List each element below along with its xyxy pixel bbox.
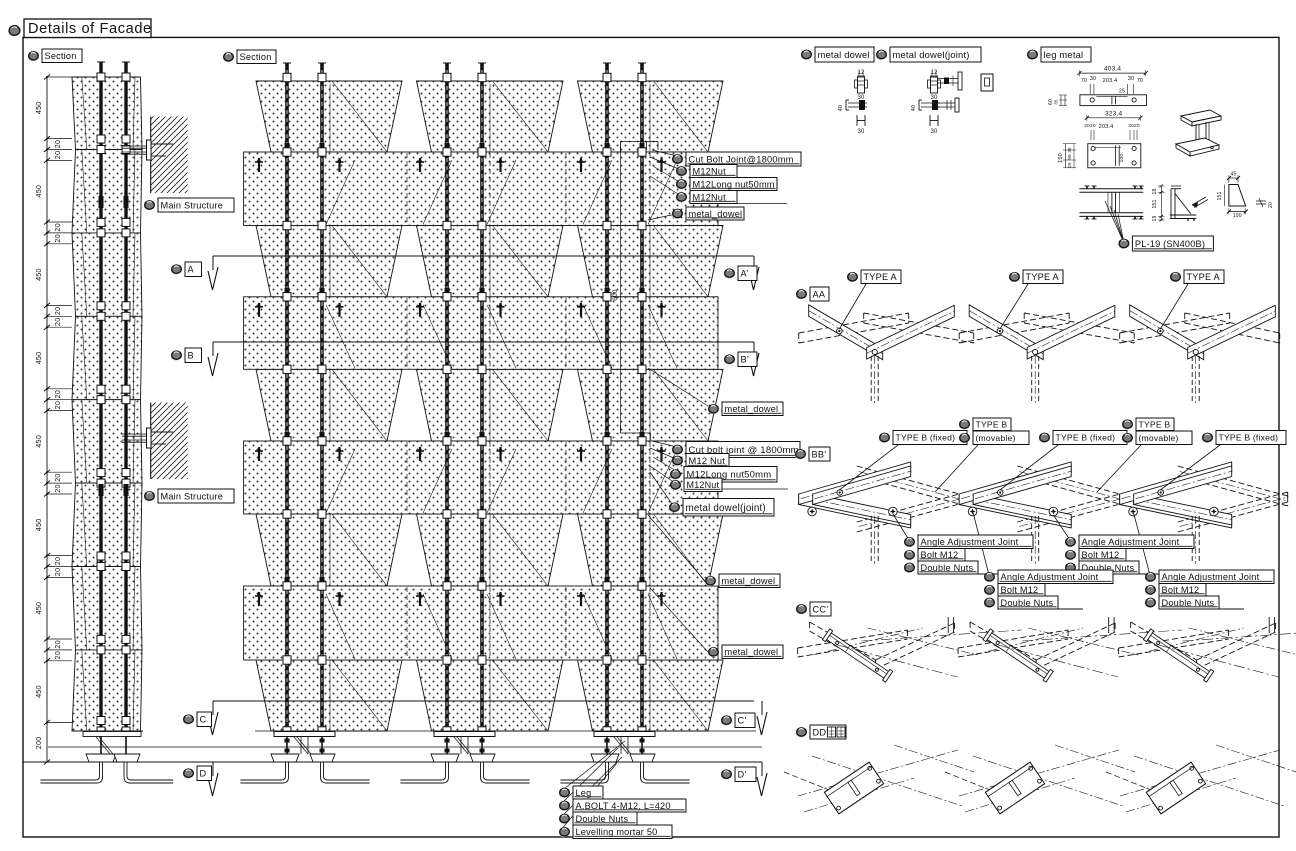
svg-text:30: 30 (1128, 76, 1135, 82)
svg-text:B’: B’ (741, 355, 750, 365)
svg-text:Angle Adjustment Joint: Angle Adjustment Joint (1082, 537, 1180, 547)
svg-text:Main Structure: Main Structure (161, 491, 224, 501)
svg-text:450: 450 (34, 268, 43, 281)
svg-text:metal dowel(joint): metal dowel(joint) (686, 503, 766, 514)
svg-text:20: 20 (1268, 202, 1274, 208)
svg-text:20: 20 (53, 640, 62, 648)
svg-text:20: 20 (53, 151, 62, 159)
svg-text:C’: C’ (738, 716, 747, 726)
svg-text:A.BOLT 4-M12, L=420: A.BOLT 4-M12, L=420 (576, 801, 671, 811)
svg-text:70: 70 (1137, 78, 1144, 84)
svg-text:TYPE A: TYPE A (864, 272, 898, 282)
svg-text:18: 18 (1152, 189, 1158, 195)
svg-text:450: 450 (34, 185, 43, 198)
svg-text:Section: Section (240, 52, 272, 62)
svg-text:151: 151 (1217, 192, 1223, 201)
svg-text:(movable): (movable) (1139, 433, 1179, 443)
svg-text:TYPE B (fixed): TYPE B (fixed) (1219, 433, 1279, 443)
svg-text:Angle Adjustment Joint: Angle Adjustment Joint (1162, 572, 1260, 582)
svg-text:TYPE A: TYPE A (1026, 272, 1060, 282)
svg-text:AA: AA (813, 289, 826, 299)
svg-text:Angle Adjustment Joint: Angle Adjustment Joint (921, 537, 1019, 547)
svg-text:Double Nuts: Double Nuts (1162, 598, 1215, 608)
svg-text:M12Long nut50mm: M12Long nut50mm (693, 179, 775, 189)
svg-text:30: 30 (857, 129, 865, 135)
svg-text:100: 100 (1119, 154, 1125, 163)
svg-text:metal_dowel: metal_dowel (725, 404, 779, 414)
svg-text:TYPE A: TYPE A (1187, 272, 1221, 282)
svg-text:metal dowel(joint): metal dowel(joint) (893, 49, 970, 60)
svg-text:TYPE B: TYPE B (1139, 419, 1171, 429)
svg-text:450: 450 (34, 102, 43, 115)
svg-text:TYPE B: TYPE B (976, 419, 1008, 429)
svg-text:Double Nuts: Double Nuts (921, 563, 974, 573)
svg-text:100: 100 (1233, 213, 1242, 219)
svg-text:TYPE B (fixed): TYPE B (fixed) (896, 433, 956, 443)
svg-text:20: 20 (53, 651, 62, 659)
svg-text:A: A (188, 265, 195, 275)
svg-text:30: 30 (930, 129, 938, 135)
svg-text:20: 20 (53, 234, 62, 242)
svg-text:CC’: CC’ (813, 604, 829, 614)
svg-text:20: 20 (53, 401, 62, 409)
svg-text:Section: Section (45, 51, 77, 61)
svg-text:D: D (200, 769, 207, 779)
svg-text:PL-19 (SN400B): PL-19 (SN400B) (1135, 239, 1205, 249)
svg-text:20: 20 (53, 568, 62, 576)
svg-text:DD’: DD’ (813, 727, 829, 737)
svg-text:M12Nut: M12Nut (693, 192, 727, 202)
svg-text:D’: D’ (738, 770, 747, 780)
svg-text:20: 20 (53, 390, 62, 398)
svg-text:151: 151 (1152, 200, 1158, 209)
svg-text:Details of Facade: Details of Facade (28, 21, 152, 37)
svg-text:metal_dowel: metal_dowel (725, 647, 779, 657)
svg-text:Double Nuts: Double Nuts (576, 814, 629, 824)
svg-text:25: 25 (1119, 89, 1125, 95)
svg-text:12: 12 (857, 70, 865, 76)
svg-text:20: 20 (53, 223, 62, 231)
svg-text:20: 20 (53, 318, 62, 326)
svg-text:403.4: 403.4 (1104, 66, 1121, 73)
svg-text:450: 450 (34, 685, 43, 698)
svg-text:20: 20 (53, 473, 62, 481)
svg-text:metal_dowel: metal_dowel (722, 576, 776, 586)
svg-text:leg metal: leg metal (1044, 49, 1084, 60)
svg-text:450: 450 (34, 602, 43, 615)
svg-text:20: 20 (53, 140, 62, 148)
svg-text:20: 20 (53, 484, 62, 492)
svg-text:Double Nuts: Double Nuts (1001, 598, 1054, 608)
svg-text:20: 20 (53, 307, 62, 315)
svg-text:Levelling mortar 50: Levelling mortar 50 (576, 827, 658, 837)
svg-text:40: 40 (838, 105, 844, 112)
svg-text:20: 20 (53, 557, 62, 565)
svg-text:Leg: Leg (576, 788, 592, 798)
svg-text:150: 150 (1058, 153, 1064, 163)
svg-text:19: 19 (1152, 216, 1158, 222)
svg-text:25: 25 (1067, 162, 1072, 168)
svg-text:M12 Nut: M12 Nut (689, 456, 726, 466)
svg-text:203.4: 203.4 (1099, 124, 1114, 130)
svg-text:(movable): (movable) (976, 433, 1016, 443)
svg-text:450: 450 (34, 352, 43, 365)
svg-text:70: 70 (1081, 78, 1088, 84)
svg-text:450: 450 (34, 519, 43, 532)
svg-text:35: 35 (1054, 99, 1059, 105)
svg-text:12: 12 (930, 70, 938, 76)
svg-text:40: 40 (911, 105, 917, 112)
svg-text:45: 45 (1231, 172, 1237, 178)
svg-text:2020: 2020 (1084, 123, 1096, 129)
svg-text:600: 600 (612, 289, 619, 301)
svg-text:TYPE B (fixed): TYPE B (fixed) (1056, 433, 1116, 443)
svg-text:metal dowel: metal dowel (818, 49, 870, 60)
svg-text:203.4: 203.4 (1103, 78, 1118, 84)
svg-text:M12Nut: M12Nut (687, 480, 720, 490)
svg-text:323.4: 323.4 (1105, 110, 1122, 117)
svg-text:90: 90 (1067, 154, 1072, 160)
svg-text:30: 30 (1090, 76, 1097, 82)
svg-text:metal_dowel: metal_dowel (689, 209, 743, 219)
svg-text:BB’: BB’ (812, 449, 827, 459)
svg-text:3020: 3020 (1128, 123, 1140, 129)
svg-text:C: C (200, 715, 207, 725)
svg-text:B: B (188, 351, 194, 361)
svg-text:Main Structure: Main Structure (161, 200, 224, 210)
svg-text:Angle Adjustment Joint: Angle Adjustment Joint (1001, 572, 1099, 582)
svg-text:450: 450 (34, 435, 43, 448)
svg-text:Cut Bolt Joint@1800mm: Cut Bolt Joint@1800mm (689, 154, 794, 164)
svg-text:A’: A’ (741, 269, 749, 279)
svg-text:200: 200 (34, 737, 43, 750)
svg-text:M12Nut: M12Nut (693, 166, 727, 176)
